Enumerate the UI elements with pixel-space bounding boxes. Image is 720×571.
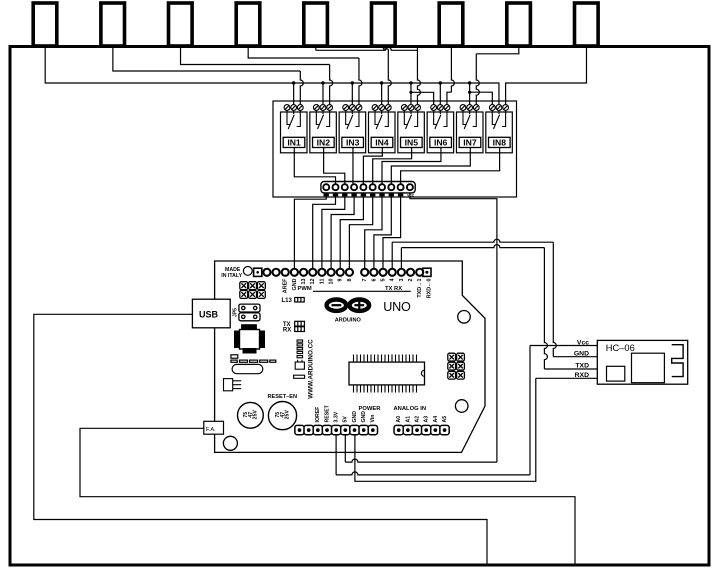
svg-text:F.A.: F.A.: [206, 427, 216, 433]
svg-text:IN5: IN5: [405, 138, 419, 148]
wire relay header pin 4 to Arduino pin 10: [331, 193, 354, 269]
relay K1 SPDT contact symbol: [287, 111, 300, 130]
mounting hole bottom-left: [223, 436, 237, 450]
svg-text:2: 2: [408, 279, 414, 282]
relay K1 screw terminals: [284, 105, 303, 111]
svg-text:10: 10: [329, 279, 335, 285]
Arduino logo: [327, 300, 370, 311]
HC-06 antenna meander: [672, 345, 683, 377]
relay K3 label box IN3: [342, 137, 364, 147]
HC-06 bluetooth module body: [597, 340, 687, 384]
junction node COM-K7: [468, 81, 471, 84]
wire lug J6 to relay K4 NO terminal: [384, 47, 389, 50]
wire bus COM from lug J1: [45, 47, 499, 105]
relay K8 screw terminals: [489, 105, 508, 111]
relay K4 label box IN4: [371, 137, 393, 147]
relay K2 label box IN2: [313, 137, 335, 147]
power pin labels: [315, 404, 376, 422]
HC-06 RXD lead: [536, 377, 598, 379]
wire relay IN1 to header pin 2: [294, 148, 335, 184]
svg-text:IN4: IN4: [375, 138, 389, 148]
junction node COM-K5: [409, 81, 412, 84]
wire COM bus to relay K2 middle terminal: [322, 83, 324, 105]
relay K6 label box IN6: [430, 137, 452, 147]
svg-text:JP5: JP5: [232, 308, 238, 317]
svg-text:PWM: PWM: [298, 286, 312, 292]
ICSP header 2: [448, 353, 465, 379]
svg-text:A4: A4: [433, 416, 439, 423]
svg-text:8: 8: [347, 279, 353, 282]
relay K4 screw terminals: [372, 105, 391, 111]
svg-text:A2: A2: [414, 416, 420, 423]
crystal and passives: [231, 355, 276, 374]
voltage regulator Q1: [224, 379, 242, 391]
wire relay header pin 5 to Arduino pin 9: [340, 193, 363, 269]
HC-06 chip (small): [607, 366, 625, 381]
relay K7 SPDT contact symbol: [463, 111, 476, 130]
jumper JP5: [239, 304, 260, 321]
wire lug J8 to relay K7 NO terminal: [476, 47, 519, 54]
svg-text:6: 6: [371, 279, 377, 282]
svg-text:AREF: AREF: [283, 278, 289, 293]
terminal lug J8 (top connector bar): [507, 3, 531, 46]
svg-text:L13: L13: [282, 298, 293, 304]
svg-text:12: 12: [310, 279, 316, 285]
relay K4 body: [368, 112, 395, 153]
terminal lug J5 (top connector bar): [304, 3, 328, 46]
relay K2 screw terminals: [313, 105, 332, 111]
svg-text:USB: USB: [199, 310, 219, 320]
wire relay IN2 to header pin 3: [324, 148, 345, 184]
digital pin labels: [283, 278, 433, 298]
relay K5 SPDT contact symbol: [404, 111, 417, 130]
wire COM bus to relay K4 middle terminal: [381, 83, 383, 105]
svg-text:UNO: UNO: [383, 300, 411, 314]
power header pins: [295, 425, 378, 434]
svg-text:RX: RX: [283, 328, 291, 334]
wire relay IN3 to header pin 4: [352, 148, 354, 184]
svg-text:ANALOG IN: ANALOG IN: [394, 406, 427, 412]
relay header pin labels GND IN1-IN8 VCC: [324, 194, 415, 198]
svg-text:IN2: IN2: [317, 138, 331, 148]
svg-text:RESET–EN: RESET–EN: [268, 394, 298, 400]
svg-text:13: 13: [301, 279, 307, 285]
relay K5 screw terminals: [401, 105, 420, 111]
wire COM bus to relay K1 middle terminal: [293, 83, 295, 105]
relay K6 screw terminals: [431, 105, 450, 111]
wire COM bus to relay K5 middle terminal: [410, 83, 412, 105]
HC-06 GND lead: [553, 356, 597, 358]
svg-text:IN6: IN6: [434, 138, 448, 148]
svg-text:RESET: RESET: [324, 404, 330, 422]
wire Arduino pin 4 to HC-06 GND: [391, 242, 393, 268]
svg-text:9: 9: [338, 279, 344, 282]
wire relay header pin 9 to Arduino pin 5: [383, 193, 401, 269]
Arduino UNO board outline: [215, 261, 485, 452]
mounting hole bottom-right: [455, 400, 468, 413]
terminal lug J1 (top connector bar): [33, 3, 57, 46]
wire lug J3 to relay K2 NO terminal: [181, 47, 330, 65]
wire relay header VCC to Arduino 5V: [410, 193, 497, 462]
fuse F.A. box: [204, 421, 224, 434]
wire relay header pin 6 to Arduino pin 8: [349, 193, 372, 269]
svg-text:IOREF: IOREF: [315, 407, 321, 423]
relay K7 label box IN7: [459, 137, 481, 147]
svg-text:25V: 25V: [285, 410, 291, 420]
relay K7 body: [456, 112, 483, 153]
svg-text:7: 7: [362, 279, 368, 282]
relay K4 SPDT contact symbol: [375, 111, 388, 130]
USB connector: [192, 299, 230, 328]
wire relay header pin 1 to Arduino pin GND: [294, 193, 326, 269]
HC-06 TXD lead: [544, 368, 597, 370]
capacitor bank small: [294, 340, 305, 378]
wire relay header pin 3 to Arduino pin 11: [322, 193, 345, 269]
svg-text:3: 3: [399, 279, 405, 282]
relay K6 body: [427, 112, 454, 153]
svg-text:IN7: IN7: [463, 138, 477, 148]
relay K3 screw terminals: [343, 105, 362, 111]
junction node COM-K6: [439, 81, 442, 84]
svg-text:5: 5: [380, 279, 386, 282]
svg-text:HC–06: HC–06: [606, 343, 635, 353]
electrolytic capacitor C2: [268, 402, 296, 430]
svg-text:A1: A1: [405, 416, 411, 423]
terminal lug J4 (top connector bar): [236, 3, 260, 46]
digital header pins 7-2,TX,RX: [361, 269, 423, 276]
relay K2 SPDT contact symbol: [316, 111, 329, 130]
svg-text:TX RX: TX RX: [385, 286, 402, 292]
digital header right square pad RXD0: [423, 268, 431, 276]
wire relay header pin 2 to Arduino pin 12: [313, 193, 336, 269]
terminal lug J7 (top connector bar): [439, 3, 463, 46]
reset button: [234, 324, 265, 353]
wire lug J4 to relay K3 NO terminal: [248, 47, 359, 59]
svg-text:Vin: Vin: [370, 415, 376, 423]
wire relay IN5 to header pin 6: [373, 148, 412, 184]
svg-text:ARDUINO: ARDUINO: [335, 317, 362, 323]
wire lug J5 to relay K5 NO terminal: [315, 47, 317, 51]
relay module outline: [273, 101, 517, 197]
wire relay IN6 to header pin 7: [382, 148, 441, 184]
wire Arduino pin 3 to HC-06 TXD: [400, 248, 402, 269]
digital header pins AREF-8: [263, 269, 353, 276]
svg-text:WWW.ARDUINO.CC: WWW.ARDUINO.CC: [308, 339, 315, 399]
svg-text:VCC: VCC: [407, 194, 415, 198]
relay K1 body: [281, 112, 308, 153]
ICSP header (USB side): [240, 282, 265, 299]
electrolytic capacitor C1: [238, 402, 264, 428]
HC-06 Vcc lead: [530, 345, 597, 347]
relay K7 screw terminals: [460, 105, 479, 111]
junction node COM-K4: [380, 81, 383, 84]
svg-text:GND: GND: [361, 411, 367, 423]
relay K5 label box IN5: [401, 137, 423, 147]
HC-06 chip (large): [632, 353, 665, 383]
wire COM bus to relay K6 middle terminal: [439, 83, 441, 105]
svg-text:POWER: POWER: [359, 406, 382, 412]
digital header left square pad: [254, 268, 262, 276]
wire relay header pin 7 to Arduino pin 7: [365, 193, 382, 269]
wire F.A. fuse to enclosure bottom: [80, 428, 575, 565]
wire COM bus to relay K7 middle terminal: [469, 83, 471, 105]
wire lug J7 to relay K6 NO terminal: [451, 47, 454, 93]
relay K1 label box IN1: [283, 137, 305, 147]
svg-text:TXD→1: TXD→1: [417, 279, 423, 298]
relay K3 SPDT contact symbol: [346, 111, 359, 130]
svg-text:A0: A0: [396, 416, 402, 423]
jumper wire K5 COM to K6 NC terminal: [409, 91, 412, 94]
mounting hole top-left: [243, 267, 252, 276]
svg-text:IN1: IN1: [287, 138, 301, 148]
terminal lug J3 (top connector bar): [169, 3, 193, 46]
svg-text:11: 11: [319, 279, 325, 285]
junction node COM-K1: [292, 81, 295, 84]
wire lug J9 to relay K8 NO terminal: [506, 47, 587, 105]
wire relay IN8 to header pin 9: [401, 148, 500, 184]
svg-text:RXD←0: RXD←0: [426, 279, 432, 299]
svg-text:TXD: TXD: [575, 362, 589, 369]
jumper wire K7 COM to K8 NC terminal: [468, 91, 471, 94]
relay K5 body: [398, 112, 425, 153]
terminal lug J9 (top connector bar): [575, 3, 599, 46]
wire relay IN7 to header pin 8: [391, 148, 470, 184]
relay K6 SPDT contact symbol: [434, 111, 447, 130]
relay K3 body: [339, 112, 366, 153]
relay K8 label box IN8: [489, 137, 511, 147]
svg-text:IN8: IN8: [493, 138, 507, 148]
analog header pins: [394, 425, 449, 434]
wire Arduino GND to HC-06 RXD: [355, 378, 536, 481]
mounting hole top-right: [458, 311, 471, 324]
wire relay IN4 to header pin 5: [363, 148, 382, 184]
svg-text:5V: 5V: [343, 416, 349, 423]
svg-text:4: 4: [390, 279, 396, 282]
svg-text:GND: GND: [352, 411, 358, 423]
svg-text:IN ITALY: IN ITALY: [221, 273, 242, 279]
wire lug J2 to relay K1 NO terminal: [113, 47, 300, 72]
terminal lug J2 (top connector bar): [101, 3, 125, 46]
wire relay header pin 8 to Arduino pin 6: [374, 193, 391, 269]
ATmega328 chip U1: [349, 362, 425, 385]
svg-text:IN3: IN3: [346, 138, 360, 148]
junction node COM-K2: [321, 81, 324, 84]
junction node COM-K3: [351, 81, 354, 84]
svg-text:25V: 25V: [253, 410, 259, 420]
terminal lug J6 (top connector bar): [372, 3, 396, 46]
relay module input pin header J-IN: [321, 182, 415, 193]
svg-text:3.3V: 3.3V: [333, 411, 339, 422]
svg-text:A5: A5: [442, 416, 448, 423]
relay K2 body: [310, 112, 337, 153]
analog pin labels: [396, 416, 448, 423]
relay K8 SPDT contact symbol: [492, 111, 505, 130]
svg-text:A3: A3: [424, 416, 430, 423]
wire Arduino 3.3V to HC-06 Vcc: [335, 434, 337, 475]
wire COM bus to relay K3 middle terminal: [351, 83, 353, 105]
wire USB shield to enclosure bottom: [34, 314, 487, 565]
relay K8 body: [486, 112, 513, 153]
